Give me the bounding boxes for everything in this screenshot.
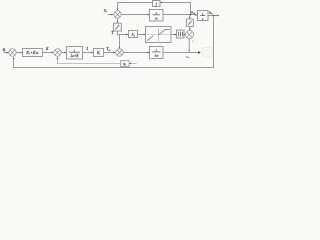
svg-text:1/Jms: 1/Jms — [149, 58, 157, 61]
summing junction S3 torque — [116, 49, 123, 56]
svg-text:Ls+R: Ls+R — [69, 54, 79, 58]
svg-text:-: - — [120, 5, 121, 9]
svg-text:K1+K2s: K1+K2s — [25, 51, 39, 55]
svg-text:I: I — [86, 47, 89, 51]
svg-text:Tf: Tf — [192, 39, 195, 44]
wire Kt to summer S3, node Tm — [104, 52, 114, 54]
wire K to relay — [138, 34, 144, 36]
wire node T to gain K — [120, 34, 127, 36]
wire inertia block to scope, node wm — [163, 52, 198, 54]
inertia block 1/(Jm s) — [150, 47, 164, 59]
saturation block stripes icon — [177, 30, 185, 38]
wire integrator to output node theta — [208, 15, 217, 17]
armature block 1/(Ls+R) — [67, 47, 83, 60]
wire relay to saturation — [171, 34, 175, 36]
product junction — [186, 31, 194, 39]
inertia block 1/(Js) upper — [150, 10, 164, 22]
back emf feedback wire from speed line — [57, 59, 59, 64]
svg-text:θr: θr — [3, 47, 6, 53]
wire friction product down to speed line — [188, 39, 190, 51]
wire armature to Kt, node I — [83, 52, 92, 54]
damping block f — [153, 1, 161, 7]
svg-text:E: E — [45, 47, 49, 51]
controller block K1+K2s — [23, 49, 43, 57]
summing junction S1 — [9, 49, 16, 56]
wire friction node T down into S3 — [117, 31, 119, 35]
wire top damping line — [117, 2, 153, 4]
gain block K — [129, 31, 138, 38]
svg-text:θm: θm — [209, 10, 213, 15]
svg-text:T: T — [111, 31, 114, 35]
friction sensing block icon — [114, 23, 122, 31]
svg-text:Tm: Tm — [106, 47, 110, 52]
svg-text:1: 1 — [74, 48, 76, 52]
wire damping feedback into S4 top — [117, 3, 119, 9]
back emf block Ke — [121, 61, 130, 67]
svg-text:ωm: ωm — [191, 10, 195, 15]
svg-text:Jms: Jms — [154, 54, 159, 58]
svg-text:TL: TL — [104, 8, 108, 13]
wire saturation to product — [183, 34, 185, 36]
sign block icon — [186, 19, 193, 27]
summing junction S2 — [54, 49, 61, 56]
integrator block 1/s — [198, 11, 209, 21]
wire sign block to product — [189, 27, 191, 29]
wire outer position feedback — [213, 16, 215, 69]
relay nonlinearity block — [146, 27, 172, 43]
svg-text:-: - — [15, 56, 16, 60]
wire S2 to armature block — [61, 52, 64, 54]
wire S4 to 1/Js — [121, 14, 147, 16]
wire controller to summer S2, node E — [43, 52, 52, 54]
wire speed node down into sign block — [189, 15, 191, 18]
wire 1/Js to integrator, node wm — [163, 14, 195, 16]
summing junction S4 (torque sum upper row) — [114, 11, 121, 18]
wire input to summer S1 — [4, 52, 7, 54]
wire speed branch up to damping line — [190, 3, 192, 15]
svg-text:ωm: ωm — [186, 54, 190, 59]
wire S4 down to friction sensing block — [117, 18, 119, 21]
wire S1 to controller — [16, 52, 20, 54]
wire S3 to inertia block — [123, 52, 147, 54]
torque constant block Kt — [94, 49, 104, 57]
faint scope block — [203, 48, 213, 57]
